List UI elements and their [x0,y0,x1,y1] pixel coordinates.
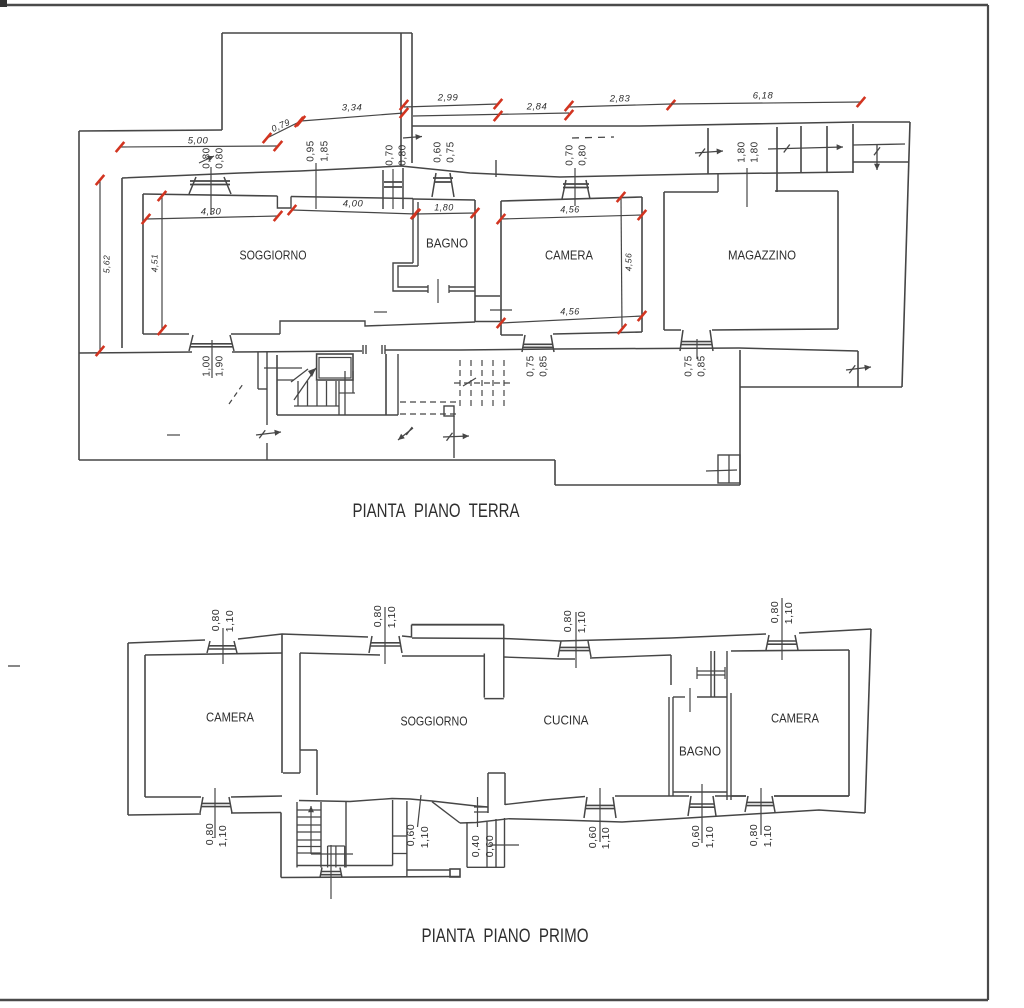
svg-text:0,80: 0,80 [210,609,222,631]
ff stair right of steps vertical [320,802,322,868]
gf hidden stair diagonal tick [463,378,476,386]
gf hall door jamb mark long [264,367,302,369]
gf wall: lower wing east wall [739,350,741,485]
gf door camera bottom [522,335,525,352]
gf hall jamb mark 2 [277,379,294,381]
gf annex: left wall [221,33,223,130]
svg-text:1,80: 1,80 [750,141,761,162]
svg-text:2,84: 2,84 [526,102,548,113]
gf annex: right wall inner line [400,33,402,166]
ff camera left: room rect [145,653,282,655]
svg-text:0,75: 0,75 [446,141,457,162]
svg-text:0,60: 0,60 [484,835,496,857]
svg-text:0,60: 0,60 [587,826,599,848]
gf stair mid horizontal [339,392,355,394]
svg-text:0,80: 0,80 [769,601,781,623]
gf wall: left inner vertical [121,178,123,348]
gf wall: porch divider x853 [852,124,854,173]
ff stair room right wall [345,801,347,868]
gf camera: bottom wall [501,334,523,336]
gf dim 2,99 line [404,104,498,107]
gf wall: bottom outer left [79,459,555,461]
svg-text:0,80: 0,80 [372,605,384,627]
gf door to hall jambs [362,345,364,354]
svg-text:1,10: 1,10 [704,826,716,848]
svg-text:0,80: 0,80 [398,144,409,165]
gf wall: bottom outer right [555,484,740,486]
gf wall: porch divider x801 [800,126,802,173]
gf courtyard small dash [167,434,180,436]
gf dashed marks above camera [572,137,614,138]
svg-text:4,30: 4,30 [201,207,222,218]
svg-text:1,85: 1,85 [320,140,331,161]
gf magazzino top opening jambs [717,174,719,192]
svg-text:0,70: 0,70 [385,144,396,165]
gf magazzino: bottom wall [664,329,681,331]
gf wall: porch divider x827 [826,126,828,173]
gf stair block right wall [385,354,387,415]
gf wall: bottom step [554,460,556,485]
svg-text:0,80: 0,80 [578,144,589,165]
gf north band partition x496 [495,160,497,177]
gf wall bagno-camera closet top [475,295,500,297]
gf annex: right wall outer line [411,33,413,163]
ff door2 leader [384,607,386,664]
svg-text:6,18: 6,18 [753,91,774,102]
svg-text:0,95: 0,95 [306,140,317,161]
svg-text:BAGNO: BAGNO [426,235,468,250]
svg-text:1,10: 1,10 [419,826,431,848]
gf terrace east wall step [857,351,859,387]
svg-text:SOGGIORNO: SOGGIORNO [240,247,307,262]
ff door jambs in east wall [393,835,407,837]
svg-text:3,34: 3,34 [342,103,363,114]
gf camera: top wall [501,197,642,201]
gf south wall outer line of upper block [79,352,192,353]
gf door arrow in porch left [695,151,723,153]
svg-text:4,51: 4,51 [149,254,159,273]
ff leader horizontal right [490,844,519,846]
gf dim leader magazzino door [696,339,698,359]
svg-text:0,70: 0,70 [565,144,576,165]
gf dim 4,30 line [146,216,278,219]
svg-text:1,10: 1,10 [783,602,795,624]
ff outer bottom left [128,814,201,815]
svg-text:4,00: 4,00 [343,199,364,210]
ff outer top wall [128,640,205,643]
ff door cucina top leader [575,612,577,668]
ff door camera right bottom [745,796,748,812]
svg-text:2,99: 2,99 [437,93,459,104]
gf wall: top outer right segment [412,122,910,126]
gf dim leader 0,80 window [210,167,212,215]
ff stub divider upper [483,654,485,698]
ff stair block left inner wall [296,802,298,868]
ff bump rectangle above soggiorno [412,624,504,626]
gf wall: right outer slanted wall [902,122,910,387]
gf camera dim right vertical 4,56 [621,197,622,329]
ff box below [450,869,460,877]
ff outer right slanted wall [865,629,871,813]
gf door soggiorno bottom [189,335,193,351]
ff antibagno wall double [710,651,712,697]
gf door arrow south mid [443,436,469,437]
ff bagno walls [668,697,670,796]
gf bagno: lower-left jog [393,263,428,291]
gf door arrow terrace [846,367,871,370]
gf door arrow right strip horizontal [853,144,905,145]
gf dashed diagonal door swing [229,384,243,404]
gf hall west wall inner [266,352,268,425]
ff antibagno door marks [697,670,725,672]
gf wall: left outer wall [78,131,80,460]
gf dim leader soggiorno bottom door [211,340,213,378]
ff door camera bottom leader [214,788,216,838]
svg-text:1,10: 1,10 [386,606,398,628]
gf dim 4,51 vertical line [161,196,163,330]
ff east wall of stair block double [392,800,394,866]
gf door mark camera left wall [490,309,512,311]
svg-text:CAMERA: CAMERA [545,247,593,262]
svg-text:0,75: 0,75 [684,355,695,376]
svg-text:4,56: 4,56 [560,204,580,214]
ff cucina right wall [670,655,672,685]
svg-text:0,80: 0,80 [215,147,226,168]
ff compartment door double horizontals [474,806,488,808]
svg-text:0,85: 0,85 [697,355,708,376]
svg-text:MAGAZZINO: MAGAZZINO [728,247,796,262]
ff door camera bottom [200,797,203,813]
ff door cucina top [558,641,561,657]
page border right line [987,5,989,1000]
svg-text:1,80: 1,80 [434,202,454,212]
gf window soggiorno top [189,177,196,194]
svg-text:1,10: 1,10 [217,825,229,847]
gf stair arrowhead [308,368,316,377]
gf dim leader 0,95 window [315,163,317,209]
gf dim 3,34 line [301,113,404,121]
gf dim 4,00 line [292,210,416,214]
ff stair bottom door [320,868,322,878]
gf bagno: top wall [413,199,475,200]
gf wall: top outer left segment [79,130,222,131]
gf wall: inner top wall line [122,166,853,178]
gf dash mark above hall door [374,311,387,313]
ff outer bottom right [509,810,865,822]
gf dim 5,62 vertical line [99,180,101,351]
gf small square pillar [444,406,454,416]
gf stair box left wall [276,355,278,415]
ff camera right room [731,650,849,651]
gf magazzino top opening leader [746,168,748,207]
gf hall west sill [258,388,267,390]
ff door 0,60 leader diagonal [418,795,422,827]
svg-text:CAMERA: CAMERA [206,709,254,724]
ff diagonal wall drop [432,802,460,823]
ff left margin small dash [8,665,20,667]
svg-text:5,00: 5,00 [188,136,209,147]
svg-text:1,10: 1,10 [600,827,612,849]
gf window left leader [392,169,394,209]
gf magazzino: left wall [663,192,665,330]
svg-text:CAMERA: CAMERA [771,710,819,725]
ff stub divider lower [487,773,489,813]
gf wall: right strip inner line [853,161,908,163]
ff south band lower line to east [460,819,509,823]
gf soggiorno: top-right jog [277,196,291,208]
gf camera: left wall [500,201,502,335]
gf terrace south line [740,386,902,388]
gf dashed lines west of hidden stair [400,401,456,403]
svg-text:0,85: 0,85 [539,355,550,376]
gf camera: right wall [641,197,643,332]
gf door arrow south left [398,428,413,440]
gf arrow through lower-right box [706,470,737,471]
gf dashed hidden stair verticals [459,360,461,406]
svg-text:0,60: 0,60 [433,141,444,162]
gf soggiorno: bottom jog to anticamera [280,321,475,334]
gf door magazzino bottom [680,330,683,351]
svg-text:0,80: 0,80 [204,823,216,845]
ff stair bottom door leader [330,845,332,899]
gf stair landing box outer [317,354,353,380]
gf soggiorno: bottom inner wall [143,333,189,335]
ff door camera right top [766,635,769,650]
gf dashed hidden stair horizontal [454,382,512,384]
gf bagno door jamb marks [427,285,429,293]
gf bagno: door mark bottom [437,279,439,303]
svg-text:1,10: 1,10 [224,610,236,632]
gf small arrow near labels [199,156,214,163]
ff camera-soggiorno wall jogs [283,772,300,774]
ff door1 leader [222,628,224,664]
ff stair direction horizontal [311,853,353,855]
ff stair lower compartment [327,846,329,868]
gf stair steps [297,381,299,406]
gf stair box bottom [277,414,398,416]
gf dim 1,80 bagno [415,213,475,214]
gf stair right verticals [338,381,340,415]
gf lower-right box on east wall [718,455,740,483]
gf wall: porch divider x708 [707,128,709,174]
gf dim 2,84 line [413,113,569,116]
svg-text:0,80: 0,80 [748,824,760,846]
gf soggiorno: top inner wall [143,194,277,196]
gf stair steps bottom line [294,405,339,407]
gf window camera top [562,180,566,199]
svg-text:SOGGIORNO: SOGGIORNO [401,713,468,728]
gf door arrow in porch right [768,147,843,149]
svg-text:4,56: 4,56 [623,253,633,272]
gf window 0,70 0,80 left [382,170,384,209]
gf wall: porch divider x777 and magazzino jamb [776,127,778,192]
gf door arrow hall west [256,432,281,435]
ff door bagno bottom [688,796,691,816]
ff inner top line soggiorno-cucina [300,653,380,655]
ff door2 soggiorno top [369,636,372,653]
gf dim 5,00 line [120,146,278,147]
gf dim 2,83 line [569,104,671,107]
gf bagno: left wall double [412,199,414,263]
gf stair diagonal direction line [294,368,316,400]
svg-text:5,62: 5,62 [101,255,111,274]
gf wall below pillar [453,416,455,458]
svg-text:BAGNO: BAGNO [679,743,721,758]
gf dim 0,79 line [267,122,299,138]
ff camera-soggiorno wall east line [299,653,301,750]
ff stair direction arrow [310,806,312,854]
svg-text:PIANTA PIANO TERRA: PIANTA PIANO TERRA [353,501,520,522]
gf soggiorno: left inner wall [142,194,144,334]
gf window small top [432,173,436,197]
ff door camera right top leader [781,598,783,660]
svg-text:0,75: 0,75 [526,355,537,376]
gf magazzino: top wall [664,191,718,193]
ff ledge line east of wall [407,869,450,871]
svg-text:1,10: 1,10 [576,611,588,633]
gf hall west wall outer [257,352,259,389]
ff door cucina bottom [584,797,587,818]
svg-text:1,00: 1,00 [202,355,213,376]
gf bagno: right wall [474,200,476,322]
gf annex: top wall [222,32,412,34]
ff bagno door mark top [689,688,691,712]
ff cucina top inner line [504,657,575,659]
ff stair block left outer wall [280,813,282,878]
ff stair steps [297,809,321,811]
gf anticamera top wall [291,197,413,199]
svg-text:PIANTA PIANO PRIMO: PIANTA PIANO PRIMO [422,926,589,947]
ff stair block north wavy line [299,799,488,808]
gf closet bottom [475,321,500,323]
svg-text:1,10: 1,10 [762,825,774,847]
svg-text:4,56: 4,56 [560,306,580,316]
gf corridor wall x398 [397,354,399,415]
gf magazzino: right wall [837,191,839,329]
ff stair block bottom outer [281,877,460,878]
gf dim 6,18 line [671,102,861,104]
ff stair block inner bottom line [297,865,393,867]
gf south wall outer line terrace [739,348,858,351]
gf door arrow right strip down arrow [876,145,878,170]
gf camera dim bottom 4,56 [501,316,642,323]
svg-text:0,80: 0,80 [562,610,574,632]
gf stair landing box inner [319,358,351,379]
svg-text:0,40: 0,40 [470,835,482,857]
page border bottom line [0,999,988,1001]
gf dim leader camera window [574,168,576,206]
svg-text:0,60: 0,60 [690,825,702,847]
svg-text:CUCINA: CUCINA [544,712,589,727]
ff outer left wall [127,643,129,815]
svg-text:2,83: 2,83 [609,94,631,105]
gf camera dim top 4,56 [501,215,642,219]
gf small arrow right of annex [403,137,422,139]
page border top line [0,4,988,6]
ff door1 camera top [207,641,210,653]
svg-text:1,90: 1,90 [215,355,226,376]
scan corner mark [0,0,7,7]
svg-text:1,80: 1,80 [737,141,748,162]
ff inner bottom line east part [505,797,585,805]
ff camera-soggiorno wall west line [281,634,283,773]
ff compartment 0,40 0,60 [466,822,468,867]
